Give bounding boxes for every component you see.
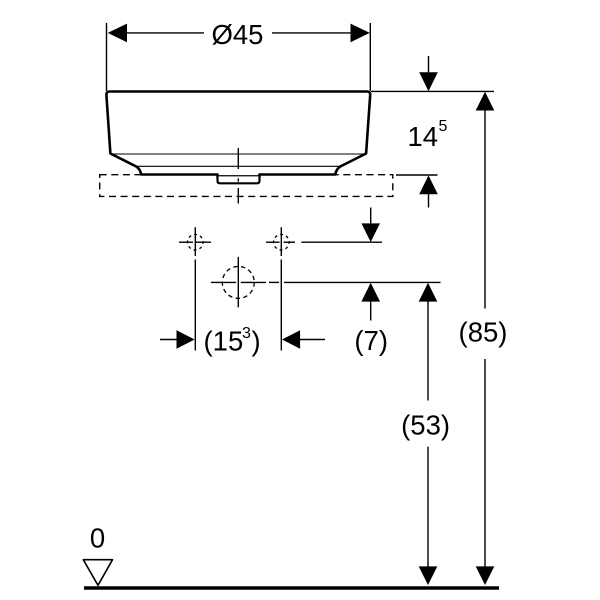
tap hole level dimension line xyxy=(301,241,382,243)
svg-text:(7): (7) xyxy=(354,325,388,356)
svg-text:3: 3 xyxy=(242,325,251,342)
washbasin inner bowl line xyxy=(136,165,341,167)
drain hole: vertical centerline xyxy=(237,257,239,307)
dimension Ø45: right extension line xyxy=(369,23,371,91)
datum triangle xyxy=(83,560,112,586)
dimension (15_3): left arrowhead (right-pointing) xyxy=(177,330,195,349)
dimension Ø45: right arrowhead xyxy=(351,24,370,43)
left tap hole: vertical centerline / extension line xyxy=(194,227,196,256)
dimension Ø45: dimension line left segment xyxy=(125,32,204,34)
drain hole: dashed circle xyxy=(222,266,254,298)
left tap hole: dashed circle xyxy=(188,234,204,250)
dimension 14_5: lower arrow stem xyxy=(428,194,430,208)
dimension (85): lower stem xyxy=(484,359,486,567)
dimension (53): lower stem xyxy=(427,447,429,567)
dimension Ø45: left extension line xyxy=(106,23,108,91)
svg-text:Ø45: Ø45 xyxy=(212,19,264,50)
drain centerline (front view) xyxy=(237,148,239,169)
dimension (7): upper arrowhead (down) xyxy=(361,223,380,242)
washbasin outline (front view) xyxy=(106,92,370,177)
right tap hole: dashed circle xyxy=(274,234,290,250)
countertop level short line xyxy=(396,174,438,176)
rim level line (right) xyxy=(371,90,494,92)
dimension (7): lower arrow stem xyxy=(370,301,372,321)
svg-text:(53): (53) xyxy=(401,410,450,441)
dimension (85): upper stem xyxy=(484,110,486,309)
dimension (15_3): left arrow stem xyxy=(160,339,178,341)
dimension (53): upper arrowhead (up) xyxy=(419,283,438,302)
countertop dashed rectangle xyxy=(100,175,393,197)
svg-text:(15: (15 xyxy=(204,326,244,357)
drain fitting under basin xyxy=(218,176,260,183)
dimension 14_5: lower arrowhead (up) xyxy=(419,175,438,194)
left tap hole: horizontal centerline xyxy=(179,241,193,243)
floor line xyxy=(84,586,499,589)
svg-text:): ) xyxy=(252,326,261,357)
dimension (85): lower arrowhead (down) xyxy=(476,566,495,585)
dimension 14_5: upper arrowhead (down) xyxy=(419,72,438,91)
dimension (15_3): right arrow stem xyxy=(299,339,325,341)
dimension 14_5: upper arrow stem xyxy=(428,56,430,73)
drain hole: horizontal centerline xyxy=(211,281,236,283)
svg-text:0: 0 xyxy=(90,523,105,554)
dimension (85): upper arrowhead (up) xyxy=(476,92,495,111)
right tap hole: horizontal centerline xyxy=(266,241,280,243)
dimension (7): lower arrowhead (up) xyxy=(361,283,380,302)
dimension (7): upper arrow stem xyxy=(370,208,372,225)
drain level dimension line xyxy=(269,281,279,283)
washbasin inner rim line xyxy=(111,153,366,155)
dimension (53): lower arrowhead (down) xyxy=(419,566,438,585)
dimension (15_3): right arrowhead (left-pointing) xyxy=(282,330,300,349)
dimension Ø45: left arrowhead xyxy=(108,24,127,43)
svg-text:14: 14 xyxy=(408,121,439,152)
dimension (53): upper stem xyxy=(427,301,429,401)
svg-text:5: 5 xyxy=(439,118,448,135)
svg-text:(85): (85) xyxy=(459,317,508,348)
dimension Ø45: dimension line right segment xyxy=(272,32,352,34)
right tap hole: vertical centerline / extension line xyxy=(280,227,282,256)
